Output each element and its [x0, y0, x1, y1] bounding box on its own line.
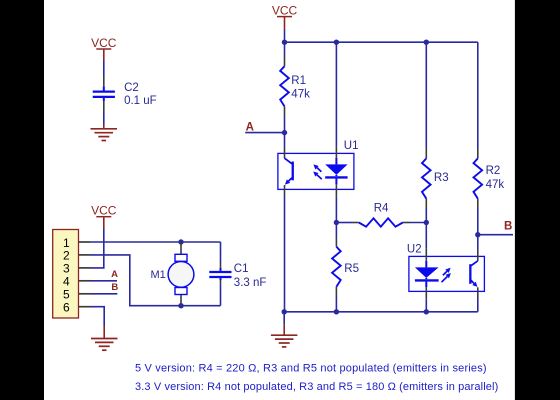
U2 LED [425, 261, 427, 268]
svg-text:R2: R2 [486, 165, 501, 177]
svg-text:6: 6 [63, 301, 70, 315]
connector JP1 body [53, 230, 79, 319]
junction top rail U1 LED [334, 40, 339, 45]
junction bottom rail R5 [334, 309, 339, 314]
wire pin2 to motor bottom [91, 255, 221, 306]
wire U1 emitter down [284, 197, 286, 312]
resistor R1 pins [284, 55, 286, 66]
wire net A [245, 132, 284, 134]
wire rail to R1 [284, 42, 286, 55]
svg-text:VCC: VCC [91, 204, 117, 218]
svg-text:R5: R5 [344, 263, 359, 275]
motor M1 pins [180, 242, 182, 254]
pin 2 stub [79, 254, 91, 256]
U1 LED [335, 158, 337, 164]
svg-text:U2: U2 [407, 243, 422, 255]
svg-text:C1: C1 [234, 263, 249, 275]
U1 light arrows [317, 168, 321, 172]
wire U1 LED to R4 node [335, 197, 337, 223]
wire R4 node to U2 LED [425, 223, 427, 249]
wire B to U2 transistor [477, 235, 479, 251]
svg-text:1: 1 [63, 236, 70, 250]
junction net A [282, 130, 287, 135]
svg-text:VCC: VCC [91, 36, 117, 50]
resistor R5 [332, 247, 341, 287]
svg-text:47k: 47k [291, 89, 310, 101]
wire A to U1 [284, 133, 286, 148]
junction bottom rail left [282, 309, 287, 314]
junction motor top [178, 239, 183, 244]
svg-text:3: 3 [63, 262, 70, 276]
resistor R5 pins [335, 237, 337, 247]
junction R4 right [424, 220, 429, 225]
U2 LED anode pin [425, 248, 427, 261]
motor M1 terminals [175, 254, 187, 261]
wire VCC to top rail [284, 17, 286, 29]
junction net B [475, 232, 480, 237]
wire pin4 net A [91, 280, 118, 282]
wire R4 right [410, 222, 427, 224]
svg-text:5 V version: R4 = 220 Ω, R3 an: 5 V version: R4 = 220 Ω, R3 and R5 not p… [135, 362, 487, 374]
resistor R4 pins [352, 222, 359, 224]
svg-text:R4: R4 [374, 203, 389, 215]
svg-text:A: A [111, 269, 118, 280]
svg-text:0.1 uF: 0.1 uF [124, 95, 157, 107]
wire R1 to A [284, 117, 286, 133]
wire VCC to C2 [103, 49, 105, 61]
pin 3 stub [79, 267, 91, 269]
svg-text:B: B [111, 282, 118, 293]
wire C2 to ground [103, 111, 105, 124]
capacitor C2 pins [103, 76, 105, 86]
svg-text:4: 4 [63, 275, 70, 289]
junction top rail R3 [424, 40, 429, 45]
wire R5 to bottom rail [335, 297, 337, 312]
wire C1 top [220, 242, 222, 263]
wire rail to R3 [425, 42, 427, 148]
svg-text:5: 5 [63, 288, 70, 302]
ground (C2 branch) [91, 128, 118, 130]
wire U2 emitter to bottom rail [477, 298, 479, 312]
U2 transistor emitter pin [477, 287, 479, 297]
svg-text:M1: M1 [151, 269, 166, 281]
svg-text:U1: U1 [344, 140, 359, 152]
wire R2 to B [477, 208, 479, 235]
left black border bar [0, 0, 44, 400]
U1 transistor emitter pin [284, 185, 286, 197]
wire top rail corner to R2 [477, 42, 479, 148]
svg-text:R3: R3 [434, 172, 449, 184]
wire U2 LED to bottom rail [425, 299, 427, 312]
U2 LED cathode pin [425, 287, 427, 299]
wire C1 bottom [220, 285, 222, 306]
wire pin6 to ground [91, 307, 105, 326]
svg-text:C2: C2 [124, 82, 139, 94]
svg-text:3.3 V version: R4 not populate: 3.3 V version: R4 not populated, R3 and … [135, 381, 498, 393]
wire pin5 net B [91, 293, 118, 295]
resistor R3 [422, 158, 431, 198]
motor M1 body [168, 262, 194, 288]
U1 LED anode pin [335, 146, 337, 158]
resistor R1 [280, 66, 289, 106]
svg-text:VCC: VCC [272, 3, 298, 17]
svg-text:B: B [504, 221, 512, 233]
wire rail to U1 LED [335, 42, 337, 146]
svg-text:R1: R1 [291, 75, 306, 87]
wire node to R5 [335, 223, 337, 238]
pin 4 stub [79, 280, 91, 282]
bottom rail wire [284, 311, 478, 313]
wire R3 to R4 node [425, 208, 427, 223]
resistor R2 [474, 158, 483, 198]
wire pin3 to VCC [103, 217, 105, 229]
U2 transistor [470, 261, 477, 266]
pin 5 stub [79, 293, 91, 295]
right black border bar [515, 0, 560, 400]
svg-text:3.3 nF: 3.3 nF [234, 277, 267, 289]
U1 transistor collector pin [284, 148, 286, 159]
pin 6 stub [79, 306, 91, 308]
junction R4 left [334, 220, 339, 225]
wire rail to ground [283, 312, 285, 325]
capacitor C2 [103, 86, 105, 90]
pin 1 stub [79, 241, 91, 243]
U1 LED cathode pin [335, 184, 337, 196]
resistor R3 pins [425, 148, 427, 158]
optocoupler U1 box [278, 153, 354, 189]
U2 transistor collector pin [477, 251, 479, 261]
junction top rail R1 [282, 40, 287, 45]
capacitor C1 [220, 268, 222, 271]
resistor R4 [359, 218, 403, 226]
resistor R2 pins [477, 148, 479, 158]
wire net B [478, 234, 513, 236]
U2 light arrows [443, 271, 447, 275]
svg-text:2: 2 [63, 249, 70, 263]
wire pin1 to motor top [91, 241, 221, 243]
ground (main) [271, 334, 298, 336]
capacitor C1 pins [220, 263, 222, 269]
wire R4 left [336, 222, 352, 224]
U1 transistor [285, 158, 293, 164]
junction bottom rail U2 LED [424, 309, 429, 314]
optocoupler U2 box [409, 256, 485, 291]
svg-text:A: A [246, 121, 254, 133]
junction motor bottom [178, 303, 183, 308]
top rail wire [285, 41, 478, 43]
ground (connector) [91, 338, 118, 340]
svg-text:47k: 47k [486, 179, 505, 191]
